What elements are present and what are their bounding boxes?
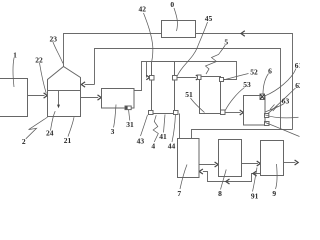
arrow right into block 8 bbox=[215, 162, 219, 167]
label 21 leader bbox=[68, 117, 74, 136]
arrow right into block 3 bbox=[98, 95, 102, 100]
block 4 port bottom-right bbox=[174, 111, 179, 115]
arrow left into pentagon bbox=[81, 82, 85, 87]
wire block 4 bottom port down to block 7 top bbox=[179, 114, 181, 139]
svg-text:42: 42 bbox=[139, 4, 147, 13]
label 44 leader bbox=[172, 115, 175, 142]
wire return path block 9 to block 7 bbox=[203, 172, 261, 182]
block 51 bbox=[200, 77, 221, 114]
svg-text:23: 23 bbox=[50, 34, 58, 43]
svg-text:24: 24 bbox=[46, 129, 54, 138]
svg-text:41: 41 bbox=[159, 132, 167, 141]
label 22 leader bbox=[40, 63, 47, 94]
block 3 bbox=[102, 89, 135, 109]
block 51 port top-right 52 bbox=[220, 78, 224, 82]
wire pentagon to block 3 bbox=[81, 97, 99, 99]
wire stub into pentagon right side bbox=[85, 84, 95, 86]
arrow left on return segment y=181.5 bbox=[226, 179, 230, 184]
svg-text:7: 7 bbox=[177, 189, 181, 198]
arrow right into block 51 bbox=[196, 75, 200, 80]
block 4 bbox=[152, 62, 175, 114]
block 51 port top-left bbox=[198, 75, 202, 80]
arrow left on top line bbox=[241, 31, 245, 36]
wire block 7 to block 8 bbox=[199, 164, 215, 166]
label 42 leader bbox=[144, 13, 153, 61]
label 31 leader bbox=[129, 110, 130, 121]
block 0 bbox=[162, 21, 196, 38]
wire block 1 to pentagon bbox=[28, 95, 45, 97]
label 53 leader bbox=[225, 88, 244, 111]
label 63 leader bbox=[266, 104, 284, 112]
label 0 leader bbox=[174, 8, 177, 31]
svg-text:2: 2 bbox=[22, 137, 26, 146]
label 4 leader with break bbox=[153, 115, 158, 142]
label 52 leader bbox=[224, 74, 249, 80]
arrow right into pentagon left bbox=[44, 93, 48, 98]
svg-text:43: 43 bbox=[137, 136, 145, 145]
wire y=129.5 feedback line into block 7 top bbox=[192, 130, 293, 139]
arrow right into block 6 bbox=[240, 110, 244, 115]
wire block 9 output to right edge bbox=[284, 162, 296, 164]
arrow right at output bbox=[295, 160, 299, 165]
label 2 leader with break bbox=[26, 117, 48, 139]
block 7 bbox=[178, 139, 200, 178]
wire block 51 bottom port to block 6 bbox=[225, 112, 241, 114]
block 2 pentagon bbox=[48, 67, 81, 117]
svg-text:8: 8 bbox=[218, 189, 222, 198]
block 8 bbox=[219, 140, 242, 177]
label 23 leader bbox=[53, 42, 63, 63]
svg-text:9: 9 bbox=[272, 189, 276, 198]
wire block 8 to block 9 bbox=[242, 163, 258, 165]
block 6 X-square cross bbox=[260, 94, 265, 99]
label 3 leader bbox=[114, 105, 117, 128]
svg-text:61: 61 bbox=[295, 61, 300, 70]
svg-text:63: 63 bbox=[282, 97, 290, 106]
svg-text:91: 91 bbox=[251, 191, 259, 200]
label 45 leader bbox=[177, 22, 207, 76]
wire block 4 right port to block 51 bbox=[177, 77, 196, 79]
svg-text:44: 44 bbox=[168, 142, 176, 151]
label 62 leader bbox=[268, 88, 296, 114]
block 4 port top-right bbox=[173, 76, 178, 81]
label 7 leader bbox=[180, 165, 187, 190]
svg-text:51: 51 bbox=[185, 90, 193, 99]
svg-text:22: 22 bbox=[35, 56, 43, 65]
label 66 leader curve to block 6 bottom port bbox=[265, 123, 299, 137]
block 4 port bottom-left bbox=[149, 111, 154, 115]
svg-text:1: 1 bbox=[13, 51, 17, 60]
wire top line from pentagon peak up and right to block 0 bbox=[64, 34, 162, 67]
label 43 leader bbox=[141, 115, 148, 136]
svg-text:52: 52 bbox=[250, 68, 258, 77]
wire top line from block 0 right to corner x=292.5 down to y=129.5 bbox=[196, 34, 293, 130]
label 41 leader bbox=[164, 115, 166, 133]
label 24 leader bbox=[51, 111, 56, 130]
block 51 port bottom-right 53 bbox=[221, 110, 226, 115]
block 3 bottom port 31 bbox=[125, 106, 131, 110]
label 65 leader curve to block 6 right port bbox=[265, 115, 299, 118]
svg-text:21: 21 bbox=[64, 136, 72, 145]
svg-text:62: 62 bbox=[295, 81, 300, 90]
svg-text:45: 45 bbox=[205, 14, 213, 23]
block 9 bbox=[261, 141, 284, 176]
svg-text:5: 5 bbox=[224, 38, 228, 47]
block 6 bbox=[244, 96, 266, 126]
arrow left on return segment y=173.5 bbox=[253, 171, 257, 176]
block 1 bbox=[0, 79, 28, 117]
wire T-drop from y=61.5 line into block 4 left port bbox=[146, 62, 148, 78]
label 9 leader bbox=[276, 164, 278, 189]
wire block 3 top right up to y=61.5 line over to x=236.5 down into block 51 top port bbox=[134, 62, 237, 91]
label 63 leader break marks bbox=[270, 105, 277, 112]
label 5 leader with break bbox=[206, 45, 226, 74]
label 91 leader bbox=[253, 168, 258, 192]
label 8 leader bbox=[221, 170, 227, 190]
label 6 leader bbox=[263, 74, 269, 95]
block 6 X-square port bbox=[260, 94, 265, 100]
block 6 right port bbox=[265, 114, 269, 118]
arrow left into block 7 bbox=[199, 169, 203, 174]
arrow right into block 9 bbox=[257, 161, 261, 166]
arrow right into block 4 bbox=[146, 75, 149, 80]
block 2 divider horizontal bbox=[48, 90, 81, 92]
svg-text:53: 53 bbox=[243, 80, 251, 89]
wire y=48.5 line from x=94.5 right to corner x=280.5 down to y=129.5 bbox=[95, 49, 281, 130]
svg-text:3: 3 bbox=[111, 127, 115, 136]
block 4 port top-left bbox=[150, 76, 155, 81]
label 51 leader bbox=[191, 98, 205, 113]
svg-text:0: 0 bbox=[170, 0, 174, 9]
label 1 leader bbox=[12, 58, 15, 87]
svg-text:4: 4 bbox=[151, 142, 155, 151]
svg-text:31: 31 bbox=[126, 120, 134, 129]
block 2 divider vertical with tip mark 24 bbox=[58, 91, 60, 106]
label 61 leader bbox=[265, 69, 296, 96]
svg-text:6: 6 bbox=[268, 66, 272, 75]
block 6 bottom-right port bbox=[265, 122, 270, 126]
